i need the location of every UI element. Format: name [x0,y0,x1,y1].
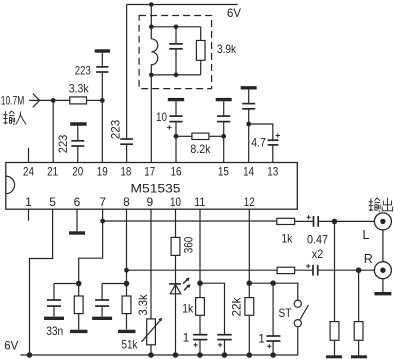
node rail capA [197,352,203,358]
node rail pot [148,352,154,358]
wire pin12 column [248,209,250,297]
polarity plus 4.7 cap [276,133,280,137]
svg-text:5: 5 [49,195,56,209]
node tank bottom left [149,73,154,78]
svg-text:6: 6 [74,195,81,209]
ground bar pair1 resistor [70,330,88,333]
LED D1 [169,278,191,294]
svg-text:17: 17 [144,165,155,179]
svg-text:223: 223 [75,64,91,78]
svg-text:8.2k: 8.2k [190,142,211,156]
svg-text:223: 223 [108,119,122,139]
svg-text:16: 16 [171,165,182,179]
wire pin10 column lower [175,284,177,355]
resistor R 3.3k pair2 [122,284,131,330]
ground bar above pin16 cap [168,98,184,101]
input arrow chevron [33,94,40,108]
wire pin8 column [126,209,128,283]
label output hanzi shu [369,198,381,212]
node tank top cap [174,25,179,30]
wire tank bottom rail [151,74,200,76]
svg-text:12: 12 [244,195,255,209]
resistor R load L [330,221,339,355]
wire pin19 column [101,100,103,162]
wire pin17 column top [150,5,152,27]
node pin12 [247,280,253,286]
node tank bottom cap [174,73,179,78]
ground bar load R [351,355,367,358]
node capC [270,280,276,286]
capacitor C pair2 [95,284,109,317]
wire pin9 column [150,209,152,319]
svg-text:9: 9 [146,195,153,209]
IC notch [6,176,15,194]
wire L jack to R jack shell [382,230,384,262]
capacitor C-pin14 [242,90,255,163]
svg-text:M51535: M51535 [131,184,181,196]
connector R RCA jack [374,262,391,279]
resistor R pair1 [74,284,83,330]
resistor R 8.2k [176,133,224,139]
polarity plus capC [267,344,271,348]
polarity plus R cap [306,264,310,268]
inductor L1 tank coil [151,27,158,75]
svg-text:21: 21 [47,165,58,179]
node input / pin21 [51,98,56,103]
wire R row to cap [295,269,313,271]
wire 6V bottom rail [20,327,297,355]
ground bar 3.3k resistor [118,330,136,333]
wire pin10 column upper [175,209,177,237]
svg-text:6V: 6V [227,6,241,20]
svg-text:1: 1 [258,332,265,346]
resistor R-in 3.3k [53,97,102,104]
capacitor tank cap [169,27,183,75]
resistor R 1k R-row [277,267,295,273]
svg-text:15: 15 [218,165,229,179]
svg-text:1k: 1k [281,232,293,246]
svg-text:20: 20 [72,165,83,179]
wire pair2 jog [102,283,126,285]
node RC pair2 junction [124,281,130,287]
potentiometer 51k [142,318,163,355]
resistor R 360 [171,237,180,284]
svg-text:33n: 33n [46,324,63,338]
svg-text:x2: x2 [312,247,324,261]
wire capA to rail [199,340,201,355]
svg-text:10: 10 [156,110,167,124]
capacitor C 1uF C [266,283,280,355]
switch ST [294,300,308,327]
wire pin5 elbow to 6V rail [30,209,53,355]
svg-text:51k: 51k [122,338,139,352]
node rail capC [270,352,276,358]
svg-text:4.7: 4.7 [251,136,266,150]
svg-text:L: L [363,228,370,242]
capacitor C 4.7uF pin13 [268,140,279,145]
svg-text:1k: 1k [182,302,194,316]
node pin8 R-row start [124,268,129,273]
capacitor C-pin20 223 [71,126,84,163]
op-amp U1 M51535 IC body [6,163,298,210]
wire pin7 column [102,209,104,221]
wire R jack shell to ground [382,279,384,292]
capacitor C-pin19 223 to ground [96,52,108,100]
wire pin6 stub [76,209,78,231]
node tank top left [149,25,154,30]
capacitor C 0.47 R coupling [313,265,318,276]
wire pin18 column lower [126,145,128,163]
capacitor C 1uF A [193,335,207,340]
capacitor C-pin18 223 [120,139,133,144]
wire L cap to jack [319,220,375,222]
capacitor C-pin15 [217,101,230,162]
svg-text:18: 18 [120,165,131,179]
capacitor C 1uF B [217,335,231,340]
node R out [356,267,362,273]
svg-text:223: 223 [56,134,70,153]
capacitor C-pin16 10uF [169,101,182,162]
resistor R 1k L-row [277,218,295,224]
svg-text:R: R [364,252,373,266]
label input hanzi ru [16,112,27,125]
wire L row [103,220,277,222]
node pin16 [174,134,179,139]
wire pin24 stub [28,148,30,163]
capacitor C 33n [47,284,61,317]
resistor R 1k pin11 [196,298,205,334]
wire pin11 jog to capB [200,283,225,334]
ground bar above pin14 cap [241,86,257,89]
wire input lead [29,99,53,101]
polarity plus L cap [306,215,310,219]
svg-text:10.7M: 10.7M [1,94,25,108]
ground bar above pin15 cap [216,98,232,101]
polarity plus capA [193,343,197,347]
node pin11 [197,280,203,286]
svg-text:24: 24 [23,165,34,179]
svg-text:1: 1 [25,195,32,209]
svg-text:3.3k: 3.3k [69,82,90,96]
svg-text:3.3k: 3.3k [136,294,150,316]
resistor R load R [354,270,363,355]
polarity plus pin16 cap [167,125,171,129]
wire pin14 to pin13 branch [249,124,273,140]
wire pin7 elbow down [79,221,103,284]
svg-text:11: 11 [194,195,205,209]
wire R cap to jack [318,269,374,271]
svg-text:360: 360 [182,237,196,254]
node rail pin5 [27,352,33,358]
wire pin17 column lower [150,75,152,163]
wire tank top rail [151,26,200,28]
svg-text:0.47: 0.47 [307,233,328,247]
wire pin21 column [52,100,54,162]
svg-text:1: 1 [183,331,190,345]
node pin7 L-row start [100,219,105,224]
svg-text:8: 8 [123,195,130,209]
ground bar pin6 [69,231,85,234]
svg-text:10: 10 [170,195,181,209]
node pin15 [221,134,226,139]
wire pin1 stub [28,209,30,221]
svg-text:22k: 22k [229,297,243,317]
wire 6V supply top rail [127,4,238,6]
svg-text:19: 19 [97,165,108,179]
connector L RCA jack [374,213,391,230]
svg-text:6V: 6V [4,339,18,353]
node pin19 [100,98,105,103]
svg-text:7: 7 [99,195,106,209]
svg-text:ST: ST [279,306,293,320]
svg-text:3.9k: 3.9k [217,42,237,56]
ground bar load L [326,355,342,358]
node rail capB [222,352,228,358]
capacitor C 0.47 L coupling [314,216,319,227]
ground bar above pin20 cap [70,122,86,125]
label output hanzi chu [382,198,392,211]
wire pin13 column [272,146,274,163]
wire R row [127,269,278,271]
dashed box IF tank [139,16,212,89]
node junction top rail / pin17 column [149,2,154,7]
node rail LED [173,352,179,358]
svg-text:14: 14 [243,165,254,179]
polarity plus capB [218,343,222,347]
wire pair1 jog [54,283,79,285]
wire capB to rail [224,340,226,355]
node RC pair1 junction [76,281,82,287]
node pin14 [246,122,251,127]
svg-text:13: 13 [267,165,278,179]
wire pin12 to capC node [249,282,273,284]
node L out [332,219,338,225]
wire pin18 column upper [126,5,128,139]
node rail 22k [247,352,253,358]
ground bar R jack [374,292,391,295]
resistor R-tank 3.9k [196,27,205,75]
label input hanzi shu [3,111,15,125]
wire pin11 column [199,209,201,297]
ground bar 33n [44,317,64,320]
wire L row to cap [295,220,313,222]
wire capC node to switch [273,283,298,300]
ground bar above pin19 cap [95,49,110,52]
ground bar pair2 cap [92,317,112,320]
resistor R 22k [245,298,254,355]
